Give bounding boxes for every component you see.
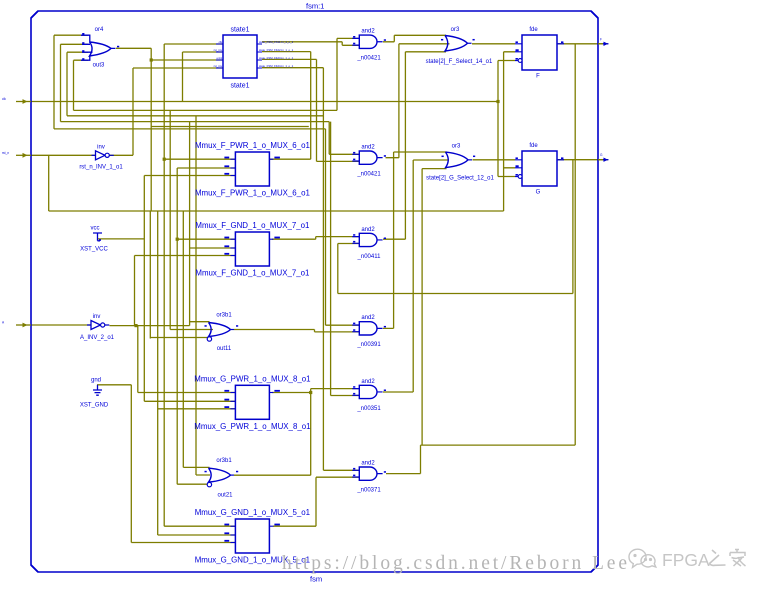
svg-text:state[2]_F_Select_14_o1: state[2]_F_Select_14_o1	[426, 59, 493, 65]
svg-text:A_INV_2_o1: A_INV_2_o1	[80, 335, 115, 341]
svg-text:rst_n_INV_1_o1: rst_n_INV_1_o1	[79, 165, 123, 171]
svg-text:_n00411: _n00411	[357, 254, 382, 260]
svg-text:or3b1: or3b1	[216, 313, 232, 319]
svg-text:and2: and2	[361, 227, 375, 233]
svg-text:or3b1: or3b1	[216, 458, 232, 464]
svg-text:rst_rsv: rst_rsv	[214, 48, 223, 52]
svg-text:_n00421: _n00421	[356, 172, 381, 178]
svg-text:fde: fde	[529, 27, 538, 33]
svg-text:state_FSM_FFd2-In_1_o_1: state_FSM_FFd2-In_1_o_1	[259, 48, 294, 52]
svg-text:fsm: fsm	[310, 575, 322, 584]
svg-text:state1: state1	[230, 83, 249, 90]
svg-text:out3: out3	[93, 63, 105, 69]
svg-text:gnd: gnd	[91, 378, 101, 384]
svg-text:fsm:1: fsm:1	[306, 2, 324, 11]
svg-text:G: G	[536, 190, 541, 196]
svg-text:_n00351: _n00351	[356, 406, 381, 412]
svg-text:clk: clk	[2, 97, 6, 101]
svg-text:and2: and2	[361, 29, 375, 35]
svg-text:or3: or3	[452, 144, 461, 150]
svg-text:Mmux_F_PWR_1_o_MUX_6_o1: Mmux_F_PWR_1_o_MUX_6_o1	[195, 189, 310, 198]
svg-text:F: F	[600, 37, 602, 41]
svg-text:FPGA: FPGA	[662, 550, 710, 570]
svg-text:vcc: vcc	[91, 226, 100, 232]
svg-text:rst_rsv: rst_rsv	[214, 64, 223, 68]
svg-text:fde: fde	[529, 143, 538, 149]
svg-text:Mmux_F_PWR_1_o_MUX_6_o1: Mmux_F_PWR_1_o_MUX_6_o1	[195, 141, 310, 150]
svg-text:or3: or3	[451, 27, 460, 33]
svg-text:_n00391: _n00391	[356, 342, 381, 348]
svg-text:https://blog.csdn.net/Reborn L: https://blog.csdn.net/Reborn Lee	[282, 553, 630, 574]
svg-text:F: F	[536, 74, 540, 80]
svg-text:XST_VCC: XST_VCC	[80, 247, 108, 253]
svg-text:or4: or4	[95, 27, 104, 33]
svg-text:and2: and2	[361, 145, 375, 151]
svg-text:and2: and2	[361, 379, 375, 385]
svg-text:and2: and2	[361, 315, 375, 321]
svg-text:out21: out21	[217, 493, 233, 499]
svg-text:Mmux_G_PWR_1_o_MUX_8_o1: Mmux_G_PWR_1_o_MUX_8_o1	[194, 422, 310, 431]
svg-text:Mmux_G_GND_1_o_MUX_5_o1: Mmux_G_GND_1_o_MUX_5_o1	[195, 508, 310, 517]
svg-text:ent1: ent1	[217, 56, 223, 60]
svg-text:state1: state1	[230, 27, 249, 34]
svg-text:state[2]_G_Select_12_o1: state[2]_G_Select_12_o1	[426, 176, 494, 182]
svg-text:inv: inv	[97, 145, 105, 151]
svg-text:Mmux_F_GND_1_o_MUX_7_o1: Mmux_F_GND_1_o_MUX_7_o1	[195, 221, 309, 230]
svg-text:state_FSM_FFd1-In_1_o_1: state_FSM_FFd1-In_1_o_1	[259, 40, 294, 44]
svg-text:XST_GND: XST_GND	[80, 403, 109, 409]
svg-text:_n00421: _n00421	[356, 56, 381, 62]
svg-text:Mmux_G_PWR_1_o_MUX_8_o1: Mmux_G_PWR_1_o_MUX_8_o1	[194, 374, 310, 383]
svg-text:and2: and2	[361, 461, 375, 467]
svg-text:out11: out11	[217, 346, 232, 352]
svg-text:state_FSM_FFd4-In_1_o_1: state_FSM_FFd4-In_1_o_1	[259, 64, 294, 68]
svg-text:rst_n: rst_n	[2, 151, 9, 155]
svg-text:_n00371: _n00371	[356, 488, 381, 494]
svg-text:clk: clk	[219, 40, 223, 44]
svg-text:state_FSM_FFd3-In_1_o_1: state_FSM_FFd3-In_1_o_1	[259, 56, 294, 60]
svg-text:inv: inv	[93, 314, 101, 320]
svg-text:Mmux_F_GND_1_o_MUX_7_o1: Mmux_F_GND_1_o_MUX_7_o1	[195, 269, 309, 278]
